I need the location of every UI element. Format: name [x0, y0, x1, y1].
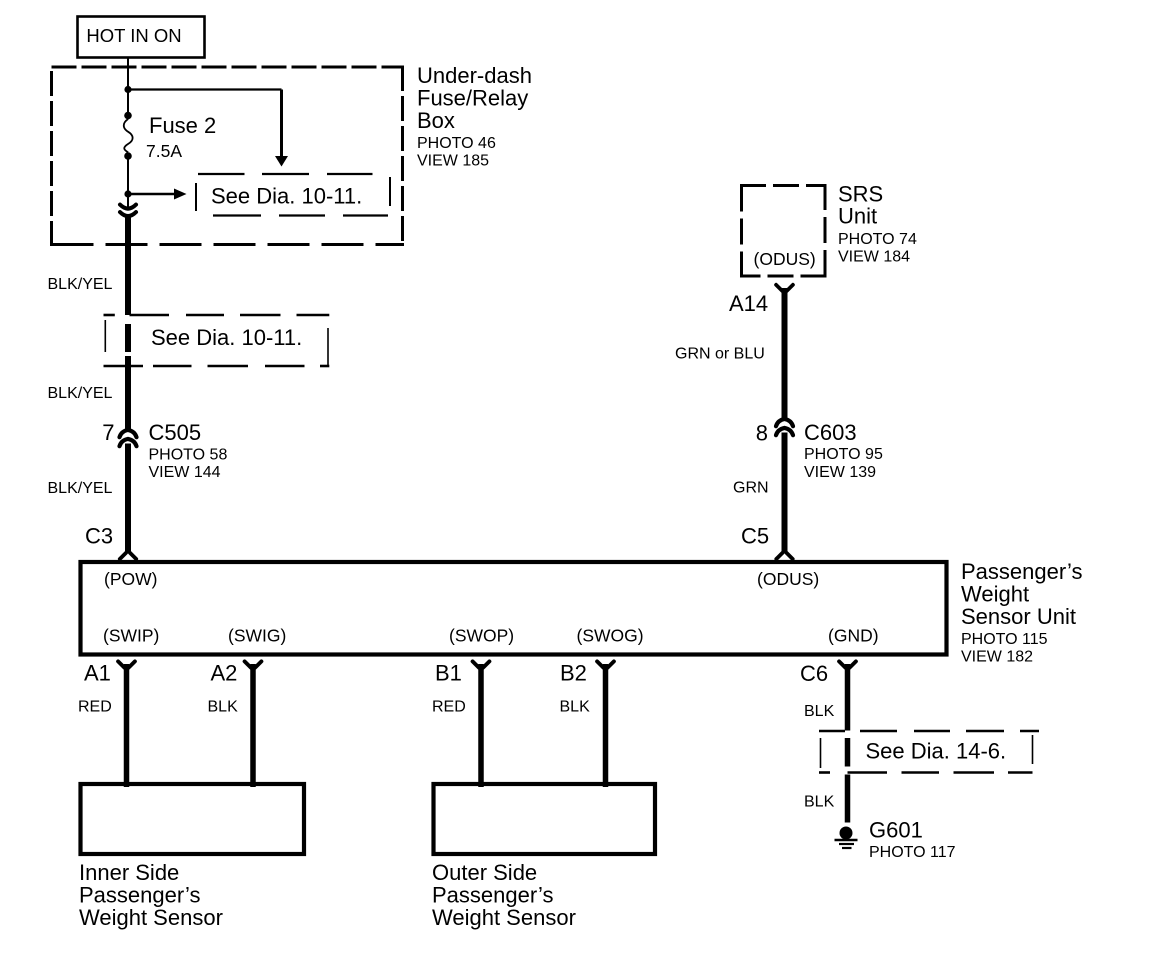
wire BLK (C6) upper — [845, 664, 851, 731]
svg-text:PHOTO 58: PHOTO 58 — [149, 447, 228, 464]
svg-text:(ODUS): (ODUS) — [757, 569, 819, 589]
svg-text:GRN or BLU: GRN or BLU — [675, 346, 765, 363]
caption Outer Side Passenger's Weight Sensor — [432, 860, 576, 930]
connector C3 terminal legs — [120, 553, 136, 559]
svg-text:VIEW 182: VIEW 182 — [961, 649, 1033, 666]
svg-text:Box: Box — [417, 108, 455, 133]
svg-text:B2: B2 — [560, 661, 587, 686]
male connector break symbol leaving fuse box — [120, 194, 136, 216]
svg-text:See Dia. 10-11.: See Dia. 10-11. — [151, 325, 302, 350]
wire from HOT IN ON down to fuse — [127, 58, 129, 114]
svg-text:RED: RED — [78, 699, 112, 716]
connector B2 terminal legs — [597, 661, 614, 667]
node (junction dot) at arrow branch — [124, 190, 131, 197]
inner side passenger's weight sensor box — [81, 784, 305, 854]
svg-text:BLK/YEL: BLK/YEL — [48, 385, 113, 402]
ground G601 — [835, 827, 858, 849]
power label box HOT IN ON — [78, 17, 205, 58]
svg-text:(SWIP): (SWIP) — [103, 626, 159, 646]
svg-text:BLK: BLK — [804, 703, 835, 720]
svg-text:RED: RED — [432, 699, 466, 716]
svg-text:7.5A: 7.5A — [146, 141, 182, 161]
svg-text:(ODUS): (ODUS) — [754, 249, 816, 269]
svg-text:PHOTO 115: PHOTO 115 — [961, 631, 1048, 648]
svg-text:(GND): (GND) — [828, 626, 879, 646]
unit caption Passenger's Weight Sensor Unit — [961, 559, 1082, 666]
svg-text:C3: C3 — [85, 524, 113, 549]
arrow to See Dia. 10-11. — [128, 189, 187, 200]
svg-text:VIEW 144: VIEW 144 — [149, 464, 221, 481]
svg-text:A14: A14 — [729, 291, 768, 316]
svg-text:Sensor Unit: Sensor Unit — [961, 604, 1076, 629]
wire GRN or BLU — [782, 288, 788, 419]
svg-text:Fuse/Relay: Fuse/Relay — [417, 86, 528, 111]
svg-text:VIEW 139: VIEW 139 — [804, 464, 876, 481]
svg-text:VIEW 184: VIEW 184 — [838, 249, 910, 266]
connector C5 terminal legs — [776, 553, 792, 559]
svg-text:BLK: BLK — [208, 699, 239, 716]
See Dia. 14-6. reference box — [819, 731, 1039, 773]
wire dash inside reference box — [845, 738, 851, 767]
svg-text:Under-dash: Under-dash — [417, 63, 532, 88]
svg-text:7: 7 — [102, 420, 114, 445]
SRS unit caption — [838, 182, 917, 266]
svg-text:A1: A1 — [84, 661, 111, 686]
svg-text:A2: A2 — [211, 661, 238, 686]
svg-text:PHOTO 74: PHOTO 74 — [838, 231, 917, 248]
wire from fuse to branch node — [127, 156, 129, 206]
See Dia. 10-11. reference box (inside fuse box) — [196, 174, 390, 216]
See Dia. 10-11. reference box (on wire) — [104, 315, 330, 366]
under-dash fuse/relay box caption — [417, 63, 532, 170]
svg-text:B1: B1 — [435, 661, 462, 686]
passenger's weight sensor unit box — [81, 562, 947, 655]
svg-text:PHOTO 46: PHOTO 46 — [417, 135, 496, 152]
svg-text:8: 8 — [756, 421, 768, 446]
connector C603 (inline, double chevron) — [776, 419, 793, 435]
connector B1 terminal legs — [473, 661, 490, 667]
svg-text:Outer Side: Outer Side — [432, 860, 537, 885]
fuse F2 (7.5A) — [124, 112, 133, 160]
svg-text:C5: C5 — [741, 524, 769, 549]
svg-text:Passenger’s: Passenger’s — [961, 559, 1082, 584]
svg-text:Inner Side: Inner Side — [79, 860, 179, 885]
svg-text:C505: C505 — [149, 420, 202, 445]
svg-text:See Dia. 10-11.: See Dia. 10-11. — [211, 184, 362, 209]
wire branch to arrow — [128, 90, 288, 167]
node (junction dot) on wire — [124, 86, 131, 93]
svg-text:Weight Sensor: Weight Sensor — [432, 905, 576, 930]
svg-text:(POW): (POW) — [104, 569, 157, 589]
wire BLK/YEL segment 2 — [125, 356, 131, 429]
connector C6 terminal legs — [839, 661, 856, 667]
svg-text:Passenger’s: Passenger’s — [79, 883, 200, 908]
wire BLK/YEL segment 1 — [125, 216, 131, 315]
svg-text:G601: G601 — [869, 818, 923, 843]
svg-text:HOT IN ON: HOT IN ON — [86, 25, 181, 46]
caption Inner Side Passenger's Weight Sensor — [79, 860, 223, 930]
svg-text:Weight: Weight — [961, 582, 1029, 607]
wire BLK/YEL segment 3 — [125, 444, 131, 554]
svg-text:(SWOP): (SWOP) — [449, 626, 514, 646]
svg-text:See Dia. 14-6.: See Dia. 14-6. — [866, 739, 1007, 764]
svg-text:Fuse 2: Fuse 2 — [149, 113, 216, 138]
wire BLK (C6) lower — [845, 775, 851, 823]
SRS unit box (dashed) — [740, 184, 827, 278]
svg-text:BLK: BLK — [804, 794, 835, 811]
connector A1 terminal legs — [118, 661, 135, 667]
svg-text:Weight Sensor: Weight Sensor — [79, 905, 223, 930]
wire BLK (B2) — [603, 664, 609, 787]
wire RED (B1) — [478, 664, 484, 787]
connector A14 terminal legs — [776, 285, 793, 291]
wire GRN segment — [782, 433, 788, 554]
svg-text:BLK: BLK — [560, 699, 591, 716]
connector A2 terminal legs — [245, 661, 262, 667]
svg-text:PHOTO 117: PHOTO 117 — [869, 844, 956, 861]
connector C505 (inline, double chevron) — [120, 430, 137, 446]
wire dash inside reference box — [125, 324, 131, 352]
svg-text:Passenger’s: Passenger’s — [432, 883, 553, 908]
svg-text:VIEW 185: VIEW 185 — [417, 153, 489, 170]
svg-text:C603: C603 — [804, 420, 857, 445]
under-dash fuse/relay box (dashed outline) — [52, 66, 405, 246]
wire RED (A1) — [124, 664, 130, 787]
svg-text:BLK/YEL: BLK/YEL — [48, 480, 113, 497]
svg-text:GRN: GRN — [733, 480, 769, 497]
svg-text:(SWIG): (SWIG) — [228, 626, 286, 646]
svg-text:PHOTO 95: PHOTO 95 — [804, 446, 883, 463]
outer side passenger's weight sensor box — [434, 784, 656, 854]
svg-text:C6: C6 — [800, 661, 828, 686]
svg-text:(SWOG): (SWOG) — [577, 626, 644, 646]
svg-text:Unit: Unit — [838, 204, 877, 229]
svg-text:BLK/YEL: BLK/YEL — [48, 276, 113, 293]
wire BLK (A2) — [250, 664, 256, 787]
